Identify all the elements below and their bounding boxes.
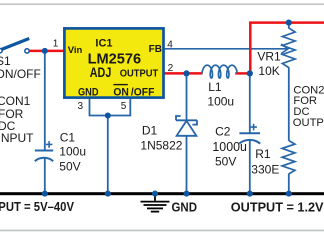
svg-text:Vin: Vin	[68, 45, 83, 56]
svg-text:2: 2	[168, 63, 174, 74]
wire: C1 branch upper	[44, 51, 46, 150]
wire: red output riser and top rail	[250, 23, 324, 75]
node: output L1 junction	[247, 70, 253, 76]
svg-text:50V: 50V	[59, 159, 80, 173]
wire: L1 to output node red	[235, 72, 250, 75]
svg-text:S1: S1	[0, 54, 11, 68]
svg-text:10K: 10K	[258, 64, 279, 78]
svg-text:INPUT = 5V–40V: INPUT = 5V–40V	[0, 200, 75, 214]
wire: C1 branch lower	[44, 159, 46, 194]
resistor R1	[282, 141, 295, 174]
wire: pin2 OUTPUT red to L1	[164, 72, 203, 75]
svg-text:OUTPUT: OUTPUT	[120, 69, 159, 80]
svg-text:1: 1	[53, 38, 59, 49]
node: switch node D1	[183, 70, 189, 76]
svg-text:1000u: 1000u	[212, 140, 247, 154]
node: VR1 top	[286, 20, 292, 26]
svg-text:C1: C1	[60, 131, 76, 145]
svg-text:L1: L1	[208, 80, 222, 94]
node: bus gnd drop	[105, 191, 111, 197]
capacitor C2	[239, 132, 260, 134]
top page rule	[0, 3, 324, 5]
node: bus R1	[286, 191, 292, 197]
node: bus D1	[183, 191, 189, 197]
wire: VR1 to R1	[288, 67, 290, 140]
potentiometer VR1	[282, 28, 295, 68]
svg-text:C2: C2	[215, 125, 231, 139]
svg-text:1N5822: 1N5822	[140, 139, 182, 153]
svg-text:INPUT: INPUT	[0, 131, 34, 145]
svg-text:3: 3	[77, 101, 83, 112]
bottom page rule	[0, 230, 324, 232]
wire: C2 branch upper	[249, 74, 251, 133]
svg-text:GND: GND	[172, 201, 198, 215]
svg-text:D1: D1	[142, 124, 158, 138]
svg-text:5: 5	[121, 101, 127, 112]
svg-text:50V: 50V	[215, 155, 236, 169]
wire: FB feedback line to VR1 wiper	[164, 48, 288, 50]
C1 polarity plus	[46, 141, 53, 148]
svg-text:ON /OFF: ON /OFF	[113, 86, 154, 98]
svg-text:ON/OFF: ON/OFF	[0, 67, 41, 81]
op-amp IC1 LM2576 body	[64, 28, 163, 97]
switch S1 blade	[0, 39, 29, 51]
svg-text:OUTPUT: OUTPUT	[293, 117, 324, 129]
node: input junction	[42, 48, 48, 54]
svg-text:R1: R1	[255, 147, 271, 161]
C2 polarity plus	[250, 124, 257, 131]
wire: C2 branch lower	[249, 140, 251, 193]
node: gnd bracket junction	[105, 112, 111, 118]
wire: D1 cathode branch	[186, 74, 188, 120]
ground bus wire	[0, 192, 324, 195]
svg-text:OUTPUT = 1.2V–37V: OUTPUT = 1.2V–37V	[231, 201, 324, 215]
svg-text:GND: GND	[78, 86, 99, 98]
diode D1 schottky	[176, 119, 197, 121]
svg-text:FB: FB	[149, 44, 162, 55]
wiper arrowhead	[282, 44, 289, 53]
svg-text:IC1: IC1	[95, 37, 112, 49]
switch S1 right contact	[25, 49, 29, 53]
wire: ground drop from bracket	[107, 116, 109, 194]
svg-text:100u: 100u	[59, 145, 86, 159]
wire: R1 to ground	[288, 174, 290, 193]
svg-text:4: 4	[167, 39, 173, 50]
wire: VR1 top stem	[288, 23, 290, 29]
node: bus C1	[42, 191, 48, 197]
wire: input red from S1 to Vin pin 1	[29, 50, 66, 53]
svg-text:100u: 100u	[207, 95, 234, 109]
ground symbol	[154, 194, 156, 201]
node: bus ground symbol	[152, 191, 158, 197]
inductor L1	[202, 65, 237, 78]
capacitor C1	[35, 150, 53, 152]
wire: pin3 pin5 ground bracket	[90, 98, 131, 116]
switch S1 left contact	[0, 49, 2, 53]
node: bus C2	[247, 191, 253, 197]
wire: D1 anode to ground	[186, 136, 188, 193]
svg-text:330E: 330E	[251, 163, 279, 177]
svg-text:VR1: VR1	[257, 49, 281, 63]
svg-text:ADJ: ADJ	[90, 64, 112, 80]
